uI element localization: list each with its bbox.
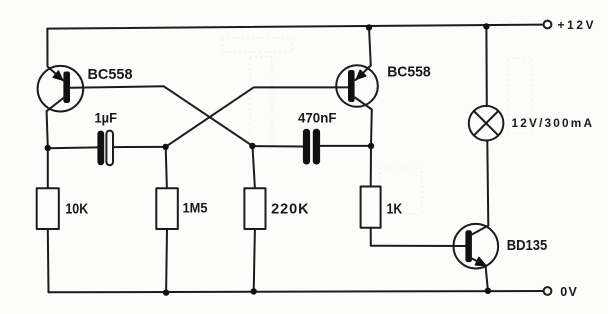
capacitor C1 1uF — [97, 131, 113, 166]
junction: R2 / ground rail — [163, 289, 169, 295]
transistor Q3 BD135 (NPN) — [454, 224, 499, 269]
wire: R3 bottom to ground rail — [254, 229, 255, 291]
resistor R3 220K — [244, 188, 265, 229]
wire: left rail from +12V down to Q1 emitter — [46, 29, 48, 67]
capacitor C2 470nF — [303, 129, 320, 165]
svg-text:1M5: 1M5 — [183, 200, 208, 216]
wire: C1 left lead from node A — [48, 146, 98, 149]
junction: node A (Q1 collector / C1 / R1) — [45, 145, 51, 151]
wire: lamp branch up to +12V rail — [485, 26, 487, 106]
wire: lamp bottom down to Q3 collector — [487, 141, 488, 226]
wire: C1 right lead to node B — [113, 146, 166, 148]
terminal: +12V — [544, 21, 552, 29]
junction: R3 / ground rail — [251, 288, 257, 294]
resistor R1 10K — [37, 188, 59, 229]
junction: Q3 emitter / ground rail — [485, 288, 491, 294]
svg-text:1µF: 1µF — [95, 110, 118, 126]
transistor Q2 BC558 (PNP, right) — [336, 65, 378, 109]
wire: Q3 emitter down to ground rail — [486, 266, 488, 291]
terminal: 0V — [544, 287, 552, 295]
wire: node C down to R3 — [253, 146, 255, 188]
wire: C2 left lead from node C — [252, 145, 303, 147]
junction: lamp branch / +12V rail — [483, 23, 489, 29]
wire: C2 right lead to node D — [320, 145, 371, 147]
wire: Q2 collector drop to C2/1K node — [370, 110, 373, 146]
wire: Q1 collector drop to C1/10K node — [47, 111, 48, 148]
svg-text:1K: 1K — [387, 201, 403, 218]
transistor Q1 BC558 (PNP, left) — [38, 66, 84, 112]
wire: R1 bottom to ground rail — [47, 229, 50, 292]
wire: R4 bottom to Q3 base — [371, 228, 466, 246]
lamp LA1 — [469, 106, 504, 141]
svg-text:+12V: +12V — [558, 18, 594, 32]
svg-text:BD135: BD135 — [507, 237, 548, 254]
junction: Q2 emitter / +12V rail — [366, 24, 372, 30]
faint scan ghost marks (background texture) — [222, 38, 532, 214]
wire: cross-coupling Q1 base to C2/220K node — [70, 86, 252, 146]
wire: 0V ground rail — [49, 291, 544, 292]
svg-text:BC558: BC558 — [387, 64, 431, 81]
wire: Q2 emitter up to +12V rail — [369, 28, 371, 66]
svg-text:220K: 220K — [271, 201, 309, 217]
svg-text:10K: 10K — [65, 200, 88, 217]
svg-text:470nF: 470nF — [298, 111, 337, 126]
junction: node C (Q1 base line / C2 / R3) — [249, 143, 255, 149]
svg-text:12V/300mA: 12V/300mA — [512, 116, 593, 130]
wire: node D down to R4 — [370, 146, 372, 187]
svg-text:0V: 0V — [560, 285, 577, 299]
junction: node D (Q2 collector / C2 / R4) — [368, 143, 374, 149]
svg-text:BC558: BC558 — [88, 66, 133, 83]
wire: R2 bottom to ground rail — [165, 229, 168, 293]
wire: node A down to R1 — [47, 148, 49, 188]
resistor R2 1M5 — [156, 188, 178, 229]
wire: cross-coupling C1/1M5 node up to Q2 base — [166, 87, 348, 146]
junction: node B (C1 / R2 / Q2 base line) — [162, 144, 168, 150]
resistor R4 1K — [361, 187, 381, 228]
wire: top +12V rail — [47, 25, 544, 29]
wire: node B down to R2 — [166, 147, 167, 188]
